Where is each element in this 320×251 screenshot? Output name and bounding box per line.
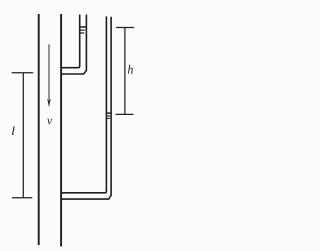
static tube right wall and upper tap lower line bbox=[61, 15, 86, 75]
label l bbox=[12, 127, 15, 135]
static tube left wall and upper tap upper line bbox=[61, 15, 80, 68]
pitot tube liquid shading bbox=[107, 115, 110, 117]
dimension line h bbox=[116, 28, 135, 115]
static tube liquid shading bbox=[80, 29, 85, 31]
pitot tube liquid level bbox=[106, 112, 111, 114]
label v bbox=[47, 119, 52, 125]
pipe left wall bbox=[38, 14, 40, 245]
static tube liquid level bbox=[80, 26, 87, 28]
dimension line l bbox=[12, 73, 34, 198]
label h bbox=[128, 65, 133, 74]
pipe right wall bbox=[60, 14, 62, 247]
pitot tube right wall and lower tap lower line bbox=[61, 17, 111, 199]
pitot tube left wall and lower tap upper line bbox=[61, 16, 106, 192]
flow arrow v bbox=[47, 44, 51, 107]
